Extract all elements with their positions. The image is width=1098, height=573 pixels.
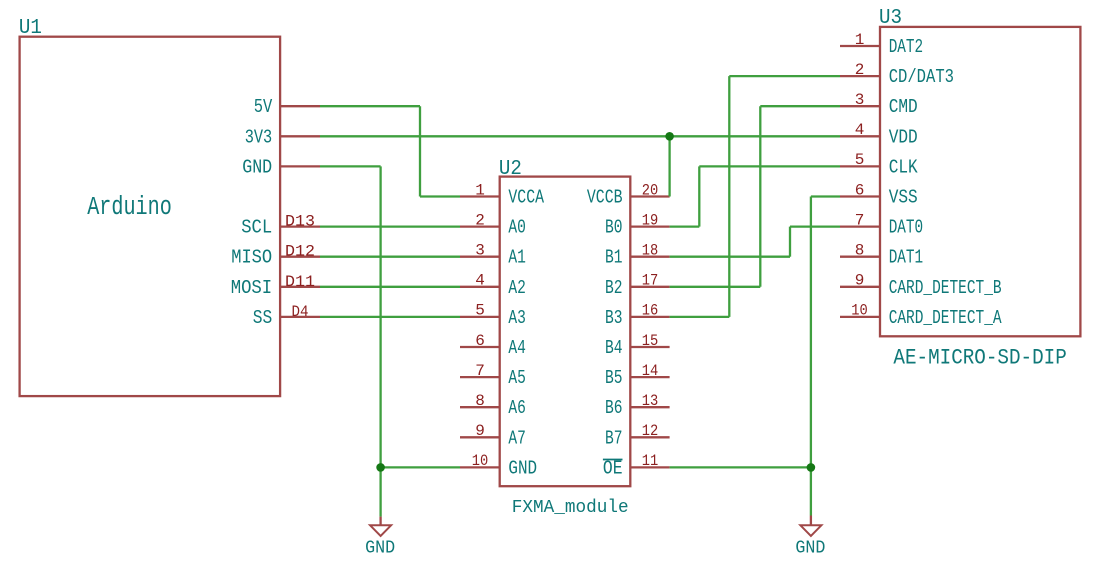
svg-text:A5: A5 [508,367,526,389]
svg-text:13: 13 [642,392,659,410]
svg-text:OE: OE [603,457,623,479]
svg-text:MOSI: MOSI [231,277,273,299]
svg-text:4: 4 [475,272,485,290]
svg-text:CARD_DETECT_A: CARD_DETECT_A [889,307,1002,329]
svg-text:1: 1 [855,31,865,49]
svg-text:A2: A2 [508,277,526,299]
svg-text:B1: B1 [605,247,623,269]
svg-text:VCCB: VCCB [587,187,623,209]
svg-text:17: 17 [642,272,659,290]
svg-text:3V3: 3V3 [245,126,273,148]
svg-text:CLK: CLK [889,156,918,178]
svg-text:6: 6 [475,332,485,350]
svg-text:2: 2 [855,61,865,79]
svg-text:VSS: VSS [889,187,918,209]
svg-text:9: 9 [475,422,485,440]
svg-text:16: 16 [642,302,659,320]
svg-text:FXMA_module: FXMA_module [512,497,629,518]
svg-text:19: 19 [642,211,659,229]
svg-text:GND: GND [365,538,395,558]
svg-text:D12: D12 [285,243,315,261]
svg-text:U2: U2 [499,158,522,181]
svg-text:MISO: MISO [231,247,272,269]
svg-text:3: 3 [475,242,485,260]
svg-text:CARD_DETECT_B: CARD_DETECT_B [889,277,1002,299]
svg-text:9: 9 [855,272,865,290]
svg-text:2: 2 [475,211,485,229]
svg-text:B5: B5 [605,367,623,389]
svg-text:B7: B7 [605,427,623,449]
svg-text:11: 11 [642,452,659,470]
svg-text:A6: A6 [508,397,526,419]
svg-text:12: 12 [642,422,659,440]
svg-text:D4: D4 [292,303,309,321]
svg-text:10: 10 [472,452,489,470]
svg-text:1: 1 [475,181,485,199]
svg-text:8: 8 [475,392,485,410]
svg-text:5V: 5V [254,96,273,118]
svg-text:A1: A1 [508,247,526,269]
svg-text:DAT1: DAT1 [889,247,923,269]
svg-text:CMD: CMD [889,96,918,118]
svg-text:D13: D13 [285,213,315,231]
svg-text:GND: GND [508,457,537,479]
svg-text:20: 20 [642,181,659,199]
svg-text:B3: B3 [605,307,623,329]
svg-text:4: 4 [855,121,865,139]
svg-text:SS: SS [253,307,273,329]
svg-text:18: 18 [642,242,659,260]
svg-text:5: 5 [855,151,865,169]
svg-text:B4: B4 [605,337,623,359]
svg-text:DAT0: DAT0 [889,217,923,239]
svg-text:SCL: SCL [241,217,272,239]
svg-text:B6: B6 [605,397,623,419]
svg-text:A0: A0 [508,217,526,239]
svg-text:A3: A3 [508,307,526,329]
svg-text:Arduino: Arduino [87,193,172,222]
svg-text:AE-MICRO-SD-DIP: AE-MICRO-SD-DIP [893,345,1066,370]
svg-text:7: 7 [855,211,865,229]
svg-text:6: 6 [855,181,865,199]
svg-text:14: 14 [642,362,659,380]
svg-text:CD/DAT3: CD/DAT3 [889,66,954,88]
svg-text:U1: U1 [19,17,42,40]
svg-text:VCCA: VCCA [508,187,544,209]
svg-text:VDD: VDD [889,126,918,148]
svg-text:GND: GND [242,156,272,178]
svg-text:3: 3 [855,91,865,109]
svg-text:DAT2: DAT2 [889,36,923,58]
svg-text:GND: GND [795,538,825,558]
svg-text:8: 8 [855,242,865,260]
svg-text:15: 15 [642,332,659,350]
svg-text:7: 7 [475,362,485,380]
svg-text:B0: B0 [605,217,623,239]
svg-text:10: 10 [851,302,868,320]
svg-text:A7: A7 [508,427,526,449]
svg-text:D11: D11 [285,273,315,291]
svg-text:B2: B2 [605,277,623,299]
svg-text:U3: U3 [879,7,902,30]
svg-text:A4: A4 [508,337,526,359]
svg-text:5: 5 [475,302,485,320]
